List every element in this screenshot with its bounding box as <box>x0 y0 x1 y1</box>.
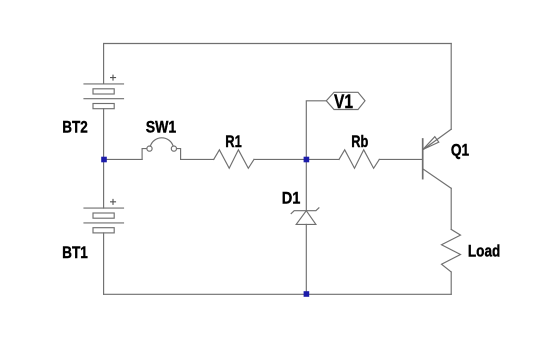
svg-text:BT1: BT1 <box>62 243 88 262</box>
wire BT2 to node A <box>103 109 105 160</box>
svg-text:Rb: Rb <box>351 132 368 151</box>
battery BT2 <box>84 75 124 109</box>
resistor Load <box>442 229 461 272</box>
svg-text:Q1: Q1 <box>451 141 469 160</box>
resistor R1 <box>214 150 254 169</box>
wire left rail top (BT2 plus lead) <box>103 44 105 84</box>
zener diode D1 <box>291 208 319 225</box>
svg-text:BT2: BT2 <box>62 117 88 136</box>
svg-text:V1: V1 <box>334 91 353 113</box>
wire Rb to Q1 base <box>379 158 422 160</box>
wire Q1 collector to Load <box>450 188 452 229</box>
voltage probe V1 flag <box>326 92 365 109</box>
wire D1 to bottom node C <box>305 224 307 294</box>
wire Load to bottom rail <box>450 272 452 294</box>
wire top rail <box>104 43 451 45</box>
wire R1 to node B <box>254 158 306 160</box>
wire BT1 to bottom rail <box>103 233 105 294</box>
node B junction <box>304 157 310 163</box>
node C junction <box>304 291 310 297</box>
svg-text:R1: R1 <box>225 132 242 151</box>
svg-text:D1: D1 <box>282 189 301 208</box>
resistor Rb <box>339 150 379 169</box>
wire bottom rail <box>104 293 452 295</box>
wire node A to BT1 <box>103 159 105 208</box>
wire node B down to D1 <box>305 159 307 210</box>
node A junction <box>101 157 107 163</box>
wire right rail upper (to Q1 emitter) <box>450 44 452 130</box>
wire SW1 to R1 <box>181 158 214 160</box>
switch SW1 <box>142 138 181 160</box>
svg-text:SW1: SW1 <box>146 118 177 137</box>
wire node A to SW1 <box>104 158 143 160</box>
battery BT1 <box>84 199 124 233</box>
transistor Q1 <box>423 129 452 188</box>
wire node B to Rb <box>306 158 339 160</box>
wire node B up to V1 tap <box>306 101 326 160</box>
svg-text:Load: Load <box>468 242 500 261</box>
